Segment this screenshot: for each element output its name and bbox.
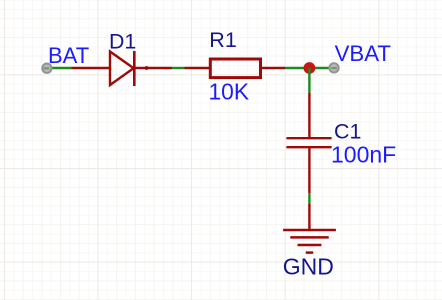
wire junction down to C1 [308,68,310,93]
designator C1 [334,120,361,144]
wire BAT to D1 anode (net BAT) [47,67,72,69]
capacitor C1 [286,93,331,194]
value 10K [209,79,250,105]
node label VBAT [335,41,392,66]
svg-text:C1: C1 [334,120,361,144]
designator D1 [109,30,136,54]
svg-text:VBAT: VBAT [335,41,392,66]
svg-text:10K: 10K [209,79,250,105]
designator R1 [209,28,236,52]
node label BAT [48,43,89,68]
diode D1 [72,51,173,86]
wire junction to VBAT terminal [310,67,334,69]
svg-text:D1: D1 [109,30,136,54]
svg-text:GND: GND [283,254,334,280]
ground symbol [283,203,336,252]
junction node [304,62,316,74]
net label GND [283,254,334,280]
terminal pin BAT [42,63,51,72]
terminal pin VBAT [329,63,338,72]
wire D1 cathode to R1 [172,67,185,69]
svg-text:BAT: BAT [48,43,89,68]
resistor R1 [185,59,286,78]
svg-text:100nF: 100nF [331,142,396,168]
wire R1 to junction [285,67,310,69]
value 100nF [331,142,396,168]
svg-text:R1: R1 [209,28,236,52]
wire C1 to GND [308,193,310,203]
